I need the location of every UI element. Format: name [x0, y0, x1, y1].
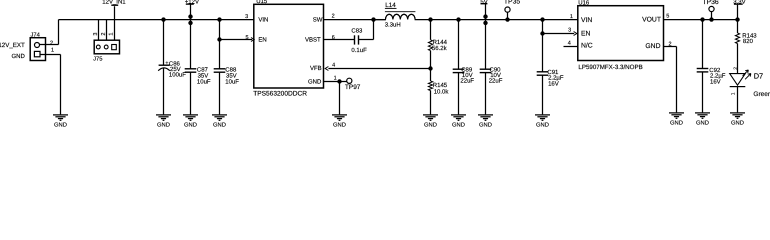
svg-text:2: 2: [332, 13, 335, 19]
svg-text:N/C: N/C: [581, 43, 593, 50]
svg-text:TP97: TP97: [345, 84, 361, 91]
svg-text:35V: 35V: [198, 72, 209, 79]
svg-text:GND: GND: [731, 120, 744, 127]
svg-text:2: 2: [50, 40, 53, 46]
svg-text:VBST: VBST: [305, 36, 321, 43]
svg-text:+12V: +12V: [185, 0, 199, 5]
svg-text:U16: U16: [578, 0, 590, 6]
svg-text:16V: 16V: [710, 78, 721, 85]
svg-text:EN: EN: [581, 31, 591, 38]
svg-text:GND: GND: [536, 122, 549, 129]
svg-text:5: 5: [245, 35, 248, 41]
svg-text:1: 1: [334, 76, 337, 82]
svg-text:2: 2: [733, 67, 739, 70]
svg-text:3.3V: 3.3V: [733, 0, 745, 5]
svg-text:EN: EN: [258, 36, 266, 43]
svg-text:VOUT: VOUT: [642, 17, 661, 24]
svg-text:TP36: TP36: [702, 0, 718, 6]
svg-text:5: 5: [666, 14, 669, 20]
svg-text:GND: GND: [670, 120, 683, 127]
svg-text:5V: 5V: [480, 0, 487, 5]
svg-text:3: 3: [93, 32, 99, 35]
svg-text:LP5907MFX-3.3/NOPB: LP5907MFX-3.3/NOPB: [578, 64, 642, 71]
svg-text:10uF: 10uF: [197, 79, 211, 86]
svg-text:1: 1: [51, 47, 54, 53]
svg-text:R144: R144: [433, 39, 448, 46]
svg-text:GND: GND: [452, 122, 465, 129]
svg-text:3: 3: [245, 14, 248, 20]
svg-text:GND: GND: [54, 122, 67, 129]
svg-text:GND: GND: [11, 53, 25, 60]
svg-text:GND: GND: [479, 122, 492, 129]
svg-text:35V: 35V: [226, 72, 237, 79]
svg-text:1: 1: [109, 32, 115, 35]
svg-text:1: 1: [570, 14, 573, 20]
svg-text:VIN: VIN: [258, 17, 268, 24]
svg-text:VFB: VFB: [310, 65, 322, 72]
svg-text:3.3uH: 3.3uH: [385, 22, 401, 29]
svg-text:J74: J74: [31, 32, 41, 38]
svg-text:TP35: TP35: [504, 0, 520, 6]
svg-text:Green: Green: [753, 91, 770, 98]
svg-text:U15: U15: [256, 0, 268, 5]
svg-text:3: 3: [568, 28, 571, 34]
svg-text:L14: L14: [385, 2, 396, 9]
svg-text:GND: GND: [333, 122, 346, 129]
svg-text:6: 6: [332, 35, 335, 41]
svg-text:SW: SW: [313, 17, 323, 24]
svg-text:C83: C83: [351, 28, 363, 35]
svg-text:GND: GND: [696, 120, 709, 127]
svg-text:J75: J75: [93, 56, 102, 62]
svg-text:16V: 16V: [548, 80, 559, 87]
svg-text:1: 1: [731, 92, 737, 95]
svg-text:2: 2: [669, 42, 672, 48]
svg-text:GND: GND: [308, 78, 322, 85]
svg-text:GND: GND: [157, 122, 170, 129]
svg-text:56.2k: 56.2k: [432, 45, 448, 52]
svg-text:22uF: 22uF: [460, 78, 474, 85]
svg-text:22uF: 22uF: [489, 78, 503, 85]
svg-text:0.1uF: 0.1uF: [351, 47, 367, 54]
svg-text:4: 4: [568, 40, 571, 46]
svg-text:4: 4: [332, 63, 335, 69]
svg-text:10uF: 10uF: [225, 79, 239, 86]
svg-text:GND: GND: [424, 122, 437, 129]
svg-text:100uF: 100uF: [169, 72, 186, 79]
svg-text:GND: GND: [213, 122, 226, 129]
svg-text:D7: D7: [754, 71, 763, 80]
svg-text:12V_IN1: 12V_IN1: [102, 0, 126, 5]
svg-text:GND: GND: [645, 43, 660, 50]
svg-text:VIN: VIN: [581, 17, 592, 24]
svg-text:GND: GND: [184, 122, 197, 129]
svg-text:R145: R145: [433, 82, 448, 89]
svg-text:2: 2: [101, 32, 107, 35]
svg-text:10.0k: 10.0k: [434, 88, 450, 95]
svg-text:TPS563200DDCR: TPS563200DDCR: [253, 91, 307, 98]
svg-text:820: 820: [743, 38, 754, 45]
svg-text:12V_EXT: 12V_EXT: [0, 42, 25, 49]
